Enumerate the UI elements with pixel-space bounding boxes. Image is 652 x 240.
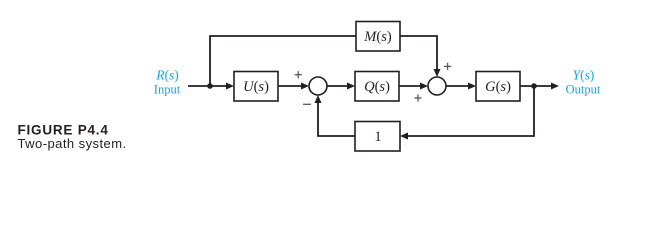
svg-text:G(s): G(s) — [485, 79, 511, 95]
svg-text:R(s): R(s) — [155, 68, 179, 83]
svg-text:U(s): U(s) — [243, 79, 269, 95]
svg-text:Y(s): Y(s) — [573, 68, 595, 83]
svg-text:Input: Input — [154, 83, 181, 97]
svg-text:1: 1 — [374, 129, 381, 145]
svg-text:Q(s): Q(s) — [364, 79, 390, 95]
svg-text:M(s): M(s) — [363, 29, 392, 45]
svg-text:Two-path system.: Two-path system. — [18, 136, 127, 151]
svg-text:Output: Output — [566, 83, 601, 97]
